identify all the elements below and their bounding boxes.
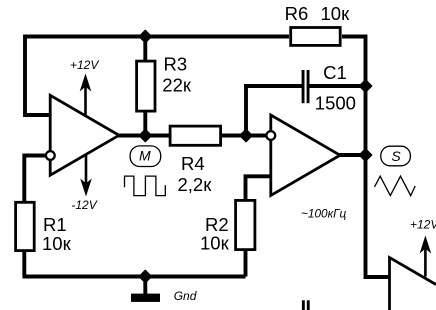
wire: ground stub [143, 277, 147, 295]
junction: ground rail [139, 270, 152, 283]
junction: top rail / R3 [139, 30, 152, 43]
svg-text:M: M [139, 147, 151, 163]
triangle wave symbol at node S [375, 176, 416, 195]
resistor R6 [291, 28, 341, 46]
svg-text:-12V: -12V [71, 198, 97, 212]
resistor R3 [137, 61, 155, 111]
svg-text:2,2к: 2,2к [178, 174, 213, 195]
junction: U2 output / right rail (node S) [359, 149, 372, 162]
op-amp U2 inverting input circle [266, 131, 275, 140]
svg-text:1500: 1500 [315, 92, 356, 113]
wire: R3 top stub [143, 35, 147, 61]
op-amp U1 inverting input circle [46, 151, 55, 160]
wire: R6 right to right rail down to U3 input [342, 37, 390, 278]
svg-text:10к: 10к [321, 3, 351, 24]
resistor R1 [16, 202, 35, 250]
wire: U1 output to R4 [118, 134, 170, 138]
svg-text:Gnd: Gnd [174, 289, 197, 303]
power -12V arrow (U1) [85, 154, 88, 184]
wire: R2 bottom to ground rail [244, 250, 248, 277]
resistor R2 [236, 200, 255, 249]
power +12V arrow (U1) [84, 86, 87, 116]
svg-text:S: S [391, 148, 401, 164]
svg-text:10к: 10к [200, 232, 230, 253]
svg-text:22к: 22к [162, 75, 192, 96]
wire: R4 to U2 inverting input [221, 134, 267, 138]
wire: U1 inverting input to R1 [24, 156, 46, 203]
svg-text:10к: 10к [42, 233, 72, 254]
svg-text:~100кГц: ~100кГц [301, 207, 347, 221]
wire: U2 output to right rail [339, 153, 366, 157]
op-amp U1 [50, 95, 119, 175]
wire: node to C1 left plate [246, 86, 302, 137]
wire: U2 + input to R2 [246, 176, 272, 201]
junction: C1 right / right rail [359, 80, 372, 93]
svg-text:R4: R4 [181, 153, 205, 174]
svg-text:+12V: +12V [70, 58, 99, 72]
svg-text:R3: R3 [164, 54, 188, 75]
capacitor C2 (partial, bottom) [302, 300, 305, 310]
junction: R4 / C1 / U2 inverting input [240, 129, 253, 142]
resistor R4 [170, 126, 221, 145]
op-amp U2 [271, 115, 340, 196]
svg-text:+12V: +12V [410, 218, 436, 232]
junction: node M (U1 output / R3 / R4) [139, 129, 152, 142]
ground symbol [131, 294, 160, 302]
node M oval [130, 146, 161, 167]
wire: R1 bottom to ground rail [22, 251, 26, 277]
wire: R3 bottom stub to node M [143, 110, 147, 137]
wire: bottom ground rail [23, 275, 246, 279]
square wave symbol at node M [125, 176, 166, 196]
wire: top feedback rail to U1 + input [25, 37, 289, 116]
power +12V arrow (U3) [424, 248, 427, 277]
svg-text:R1: R1 [43, 214, 67, 235]
svg-text:C1: C1 [323, 62, 347, 83]
wire: C1 right plate to right rail [309, 84, 365, 88]
svg-text:R6: R6 [285, 3, 309, 24]
node S oval [381, 146, 411, 166]
op-amp U3 (partial, bottom right) [390, 258, 436, 310]
capacitor C1 plates [302, 70, 305, 103]
